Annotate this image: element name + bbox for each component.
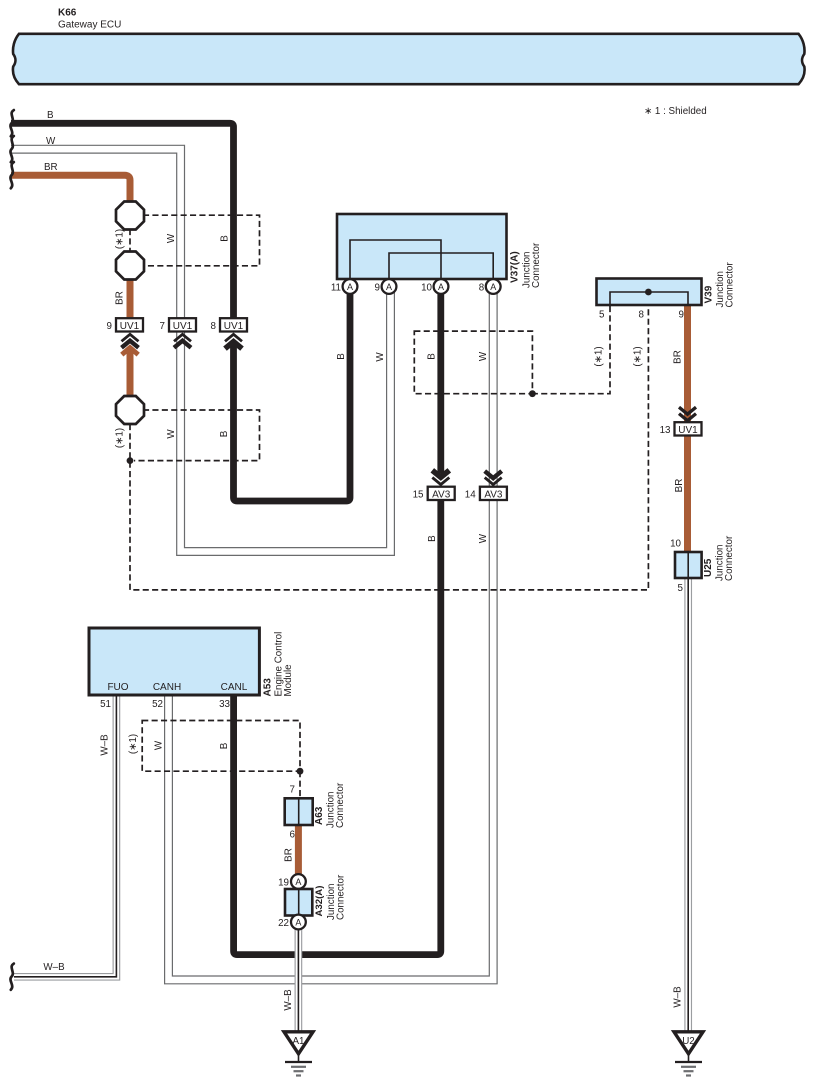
svg-text:BR: BR [44, 162, 58, 173]
wire BR V39 pin9 to U25 [684, 306, 691, 553]
svg-text:A: A [347, 282, 353, 292]
dashed shield box below A53 [142, 721, 300, 772]
svg-text:W: W [478, 533, 489, 543]
pin 10 circle [421, 279, 448, 294]
octagon shield sym 2 [116, 252, 144, 280]
svg-text:CANL: CANL [221, 682, 248, 693]
svg-text:A: A [386, 282, 392, 292]
pin 9 circle [375, 279, 397, 294]
svg-text:A: A [438, 282, 444, 292]
dashed V39 pin5 down and left to shield box dot [532, 306, 610, 394]
gateway ECU K66 band [13, 34, 805, 84]
svg-text:22: 22 [278, 918, 289, 929]
chevrons up below UV1-9 [122, 334, 139, 347]
wire BR horizontal to octagon [11, 175, 130, 203]
svg-text:B: B [219, 742, 230, 749]
svg-text:7: 7 [160, 321, 165, 332]
svg-text:V39: V39 [704, 285, 715, 303]
svg-text:9: 9 [679, 310, 684, 321]
node dot A53 shield corner [297, 768, 304, 775]
svg-text:5: 5 [678, 583, 684, 594]
svg-text:7: 7 [290, 785, 295, 796]
connector UV1 pin9 box [116, 318, 143, 332]
wire W-B FUO: A53 pin51 down, left to break (outer grey) [14, 695, 116, 977]
octagon shield sym 1 [116, 202, 144, 230]
svg-text:W: W [375, 352, 386, 362]
ECU A53 [89, 628, 294, 710]
pin 11 circle [331, 279, 358, 294]
dashed octagon3 down to y590 right to V39 pin8 [130, 306, 648, 590]
svg-text:Connector: Connector [724, 535, 735, 581]
svg-text:(∗1): (∗1) [633, 346, 644, 366]
dashed from dot down to A63 pin 7 [299, 771, 301, 799]
dashed shield box above AV3 [414, 331, 532, 394]
chevrons up below UV1-7 [174, 334, 191, 347]
ground U2 [674, 1032, 703, 1076]
dashed shield link octagon1-2 box [143, 215, 260, 266]
wire BR UV1-9 to octagon3 [127, 349, 134, 398]
svg-text:Connector: Connector [531, 242, 542, 288]
svg-text:Connector: Connector [336, 874, 347, 920]
svg-text:Connector: Connector [335, 782, 346, 828]
junction connector U25 [670, 535, 735, 594]
svg-text:(∗1): (∗1) [115, 229, 126, 249]
svg-text:AV3: AV3 [432, 489, 451, 500]
svg-text:V37(A): V37(A) [510, 251, 521, 283]
svg-text:A: A [295, 877, 301, 887]
break squiggle BR wire [10, 162, 13, 188]
svg-text:W: W [46, 136, 56, 147]
svg-text:W: W [166, 429, 177, 439]
svg-text:19: 19 [278, 877, 289, 888]
svg-text:BR: BR [673, 350, 684, 364]
junction connector A63 [285, 782, 346, 840]
svg-text:10: 10 [421, 282, 432, 293]
svg-text:AV3: AV3 [484, 489, 503, 500]
svg-text:UV1: UV1 [173, 321, 193, 332]
pin 8 circle [479, 279, 501, 294]
svg-text:CANH: CANH [153, 682, 181, 693]
svg-text:15: 15 [413, 489, 424, 500]
svg-text:51: 51 [100, 699, 111, 710]
svg-text:W–B: W–B [283, 989, 294, 1011]
connector UV1 pin7 box [169, 318, 196, 332]
BR arrow tip below UV1-9 [122, 348, 138, 355]
svg-text:Module: Module [283, 664, 294, 697]
svg-text:(∗1): (∗1) [128, 734, 139, 754]
svg-text:B: B [336, 353, 347, 360]
svg-text:6: 6 [290, 830, 296, 841]
svg-text:A63: A63 [314, 806, 325, 825]
svg-text:B: B [47, 110, 54, 121]
connector AV3 pin15 box [413, 487, 455, 501]
svg-text:∗ 1 : Shielded: ∗ 1 : Shielded [644, 106, 707, 117]
svg-text:BR: BR [284, 848, 295, 862]
connector UV1 pin13 box [660, 422, 702, 436]
svg-text:W: W [154, 740, 165, 750]
junction connector A32(A) [285, 874, 347, 920]
wire W CANH inner white [169, 287, 494, 980]
break squiggle W wire [10, 136, 13, 162]
dashed shield octagon3 box [134, 410, 260, 461]
svg-text:8: 8 [211, 321, 217, 332]
octagon shield sym 3 [116, 396, 144, 424]
junction connector V39 [597, 262, 736, 321]
svg-text:10: 10 [670, 539, 681, 550]
wire B CANL: A53 pin33 down, right, up through AV3-15 to V37 pin 10 [234, 487, 441, 955]
svg-text:W: W [478, 351, 489, 361]
node dot below octagon3 [127, 457, 134, 464]
svg-text:14: 14 [465, 489, 476, 500]
svg-text:BR: BR [674, 479, 685, 493]
svg-text:Connector: Connector [725, 262, 736, 308]
V37(A) rotated labels [510, 242, 543, 288]
break squiggle W-B wire bottom left [10, 964, 13, 990]
svg-text:A: A [295, 918, 301, 928]
svg-text:B: B [220, 235, 231, 242]
svg-text:52: 52 [152, 699, 163, 710]
wire W CANH: A53 pin52 down, right, up through AV3-14 to V37 pin 8 (outer) [169, 287, 494, 980]
svg-text:(∗1): (∗1) [115, 428, 126, 448]
wire BR A63 to pin19 circle [295, 824, 302, 875]
wire W horizontal+U to V37 pin 9 (outer) [11, 149, 391, 551]
wire B horizontal+U to V37 pin 11 [11, 123, 234, 325]
svg-text:5: 5 [599, 310, 605, 321]
svg-text:9: 9 [107, 321, 112, 332]
svg-text:A1: A1 [293, 1036, 305, 1047]
node dot shield box corner [529, 390, 536, 397]
svg-text:W–B: W–B [100, 734, 111, 756]
connector UV1 pin8 box [220, 318, 247, 332]
wire W inner white [11, 149, 391, 551]
svg-text:A53: A53 [263, 678, 274, 697]
svg-text:UV1: UV1 [120, 321, 140, 332]
wire BR octagon2 to UV1-9 [127, 279, 134, 320]
svg-text:K66: K66 [58, 8, 77, 19]
svg-text:UV1: UV1 [224, 321, 244, 332]
svg-text:BR: BR [115, 291, 126, 305]
chevrons down above AV3-14 [485, 471, 502, 484]
wire W-B U25 to U2 ground [684, 577, 692, 1031]
break squiggle B wire [10, 110, 13, 136]
svg-text:W–B: W–B [673, 986, 684, 1008]
svg-text:U2: U2 [682, 1036, 695, 1047]
svg-text:B: B [427, 353, 438, 360]
dashed between octagons [129, 229, 131, 252]
svg-text:UV1: UV1 [678, 425, 698, 436]
svg-text:U25: U25 [703, 558, 714, 577]
svg-text:8: 8 [479, 282, 485, 293]
chevrons down above UV1-13 [679, 407, 696, 420]
svg-text:8: 8 [639, 310, 645, 321]
svg-text:(∗1): (∗1) [594, 346, 605, 366]
svg-text:11: 11 [331, 282, 341, 293]
chevrons down above AV3-15 [432, 470, 449, 484]
svg-text:B: B [219, 430, 230, 437]
svg-text:9: 9 [375, 282, 380, 293]
pin 19 circle [278, 874, 306, 889]
svg-text:B: B [427, 535, 438, 542]
wire W-B A32 pin22 to A1 ground [295, 929, 303, 1032]
svg-text:33: 33 [219, 699, 230, 710]
junction connector V37(A) [337, 214, 507, 279]
connector AV3 pin14 box [465, 487, 507, 501]
svg-text:13: 13 [660, 425, 671, 436]
svg-text:FUO: FUO [107, 682, 128, 693]
svg-text:W–B: W–B [43, 962, 65, 973]
svg-text:A32(A): A32(A) [314, 886, 325, 917]
svg-text:W: W [166, 233, 177, 243]
svg-text:Gateway ECU: Gateway ECU [58, 20, 121, 31]
svg-text:A: A [490, 282, 496, 292]
ground A1 [284, 1032, 313, 1076]
chevrons up below UV1-8 [225, 334, 242, 348]
pin 22 circle [278, 915, 306, 930]
